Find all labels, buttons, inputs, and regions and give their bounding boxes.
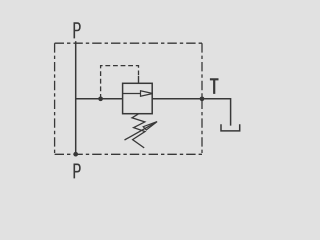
valve flow arrow (hollow) xyxy=(141,91,153,96)
junction dot: pilot tap on P line xyxy=(98,96,103,101)
port label P (top) xyxy=(74,23,80,38)
enclosure boundary left (dash-dot) xyxy=(54,43,56,154)
valve body square xyxy=(123,83,153,113)
wire: main line from P to valve inlet xyxy=(76,98,123,100)
tank symbol xyxy=(221,124,240,131)
wire: P supply vertical line xyxy=(75,41,77,154)
spring (zigzag) xyxy=(132,114,145,148)
pilot stub on valve top xyxy=(138,76,140,83)
adjustment arrow shaft xyxy=(125,122,156,140)
wire: valve outlet to tank xyxy=(152,99,230,126)
adjustment arrow head (hollow) xyxy=(143,122,157,130)
port label T xyxy=(210,79,219,94)
enclosure boundary right (dash-dot) xyxy=(201,43,203,154)
valve internal flow line xyxy=(123,93,141,95)
enclosure boundary bottom (dash-dot) xyxy=(55,153,202,155)
junction dot: T port on right boundary xyxy=(200,96,205,101)
enclosure boundary top (dash-dot) xyxy=(55,42,202,44)
pilot line (dashed) xyxy=(101,66,139,99)
junction dot: P port on bottom boundary xyxy=(73,152,78,157)
port label P (bottom) xyxy=(74,164,80,178)
